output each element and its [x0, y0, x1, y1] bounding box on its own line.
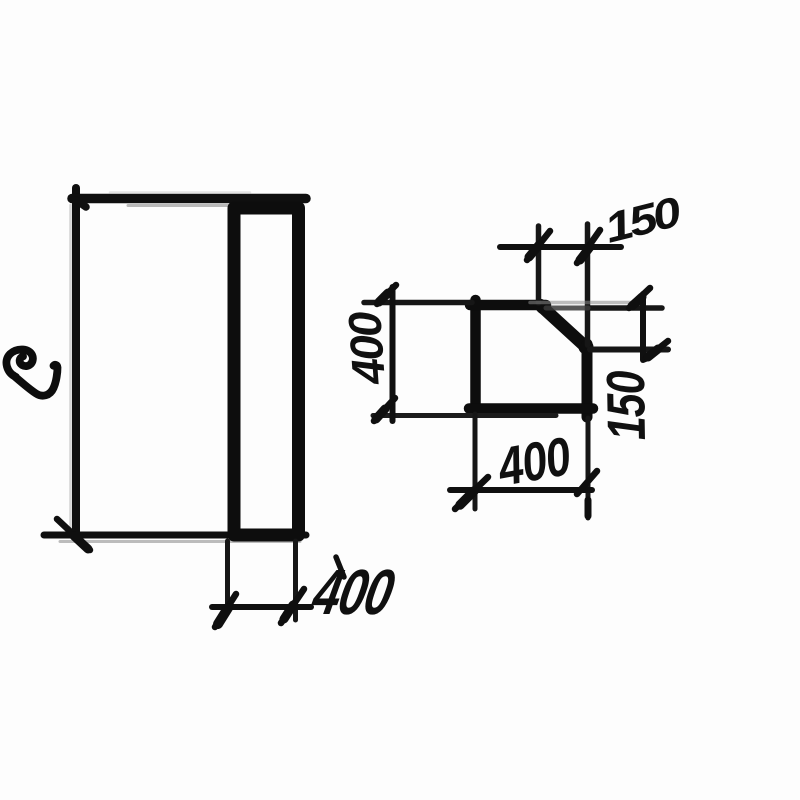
stroke apex of digit 4 (left figure 400)	[336, 557, 344, 577]
panel left edge / dimension line l	[71, 188, 77, 537]
section right edge	[582, 344, 593, 417]
arrow tick bottom-left of panel	[57, 519, 90, 550]
junction blob chamfer top	[536, 300, 550, 314]
arrow tick top of right 150 dimension	[629, 288, 650, 308]
arrow tick left of bottom 400 dimension	[455, 477, 488, 509]
svg-text:150: 150	[596, 370, 657, 441]
section bottom edge	[469, 403, 593, 414]
extension line right of bottom 400 dimension	[586, 418, 591, 518]
arrow tick bottom of right 150 dimension	[645, 341, 668, 359]
extension line bottom of right 150 dimension	[590, 347, 668, 353]
panel bottom edge	[44, 535, 306, 542]
extension line bottom-right of strip	[293, 541, 298, 620]
extension line bottom-left of strip	[225, 541, 230, 613]
arrow tick bottom of left 400 dimension	[374, 398, 395, 421]
corner blob top-left	[76, 200, 86, 207]
dimension line 150 (top)	[500, 244, 621, 250]
section top edge	[470, 300, 546, 311]
svg-text:150: 150	[600, 188, 686, 252]
svg-text:400: 400	[493, 426, 575, 498]
section chamfer	[540, 305, 587, 348]
dimension line 400 (section bottom)	[450, 487, 592, 493]
extension line bottom of left 400 dimension	[373, 413, 556, 418]
arrow tick left of 400 dimension	[215, 594, 236, 627]
arrow tick right of bottom 400 dimension	[577, 471, 597, 516]
label l (script ell, rotated)	[6, 350, 57, 396]
dimension line 400 (left figure bottom)	[212, 604, 311, 610]
arrow tick left of top 150 dimension	[527, 231, 550, 260]
extension line top of right 150 dimension	[530, 303, 662, 309]
extension line right of top 150 dimension	[585, 224, 591, 345]
panel top edge	[72, 193, 306, 206]
svg-text:400: 400	[338, 309, 395, 387]
arrow tick right of top 150 dimension	[577, 230, 600, 263]
extension line left of bottom 400 dimension	[473, 414, 478, 509]
extension line left of top 150 dimension	[536, 226, 542, 303]
svg-text:400: 400	[306, 556, 400, 628]
extension line top of left 400 dimension	[364, 300, 472, 306]
arrow tick top of left 400 dimension	[377, 285, 396, 304]
rib strip thick rectangle	[234, 208, 299, 535]
dimension line 150 (right of section)	[640, 294, 646, 360]
dimension line 400 (left of section)	[390, 287, 396, 421]
section left edge	[470, 300, 481, 413]
arrow tick right of 400 dimension	[281, 589, 304, 623]
junction blob chamfer bottom	[579, 340, 594, 355]
